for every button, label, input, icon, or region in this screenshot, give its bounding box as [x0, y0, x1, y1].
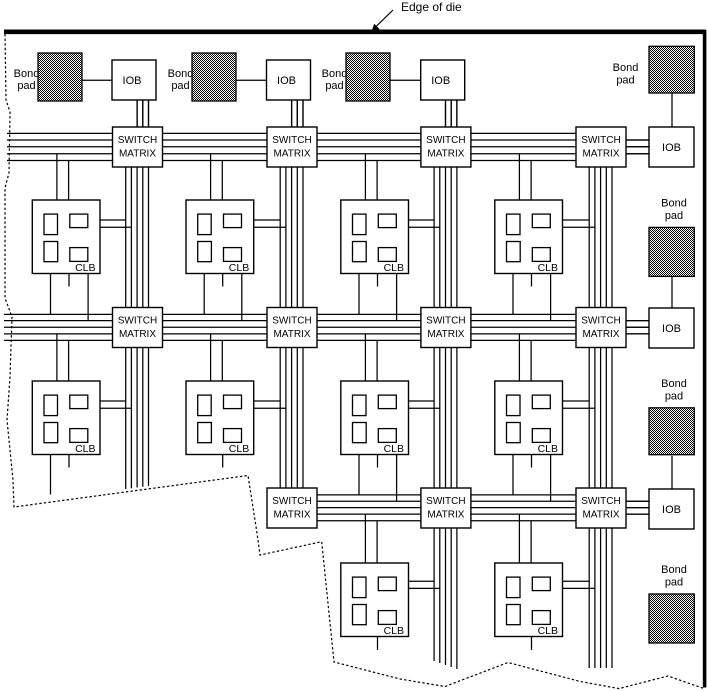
v-bus col3 line2 [439, 127, 441, 663]
stub CLB r1c3 bottom-middle [377, 274, 379, 287]
v-bus col4 line3 [600, 127, 602, 668]
wire IOB3-to-switch-matrix v2 [450, 100, 452, 127]
v-bus col4 line1 [588, 127, 590, 668]
svg-text:CLB: CLB [538, 625, 558, 637]
svg-text:MATRIX: MATRIX [273, 149, 310, 160]
wire CLB r2c4 right-2 [563, 407, 595, 409]
CLB r1c3 inner blocks [353, 214, 397, 262]
CLB r2c2 inner blocks [198, 395, 242, 443]
svg-text:IOB: IOB [662, 323, 681, 335]
svg-text:IOB: IOB [662, 504, 681, 516]
wire CLB r1c2 top-left [210, 154, 212, 200]
wire CLB r2c3 bottom-left [358, 455, 360, 495]
svg-text:MATRIX: MATRIX [582, 149, 619, 160]
wire CLB r1c1 right-2 [100, 226, 131, 228]
v-bus col1 line4 [142, 100, 144, 487]
wire CLB r1c3 right-2 [409, 226, 440, 228]
switch matrix r2c2 [267, 308, 317, 348]
CLB r2c4 inner blocks [507, 395, 551, 443]
wire CLB r2c2 top-left [210, 334, 212, 381]
wire IOB3-to-switch-matrix v1 [445, 100, 447, 127]
svg-text:CLB: CLB [229, 262, 249, 274]
arrowhead Edge of die [372, 24, 380, 32]
wire CLB r2c2 right-1 [254, 400, 281, 402]
svg-text:Edge of die: Edge of die [401, 0, 462, 14]
svg-text:CLB: CLB [75, 262, 95, 274]
CLB r2c3 inner blocks [353, 395, 397, 443]
wire CLB r2c1 right-1 [100, 400, 126, 402]
v-bus col3 line5 [456, 100, 458, 669]
wire CLB r1c1 top-right [68, 161, 70, 201]
wire CLB r2c2 right-2 [254, 407, 286, 409]
v-bus col4 line2 [594, 127, 596, 668]
die edge right (thick) [703, 30, 707, 688]
wire CLB r1c2 top-right [221, 161, 223, 201]
svg-text:pad: pad [171, 80, 189, 92]
wire CLB r1c3 bottom-right [396, 274, 398, 321]
wire CLB r1c4 right-2 [563, 226, 595, 228]
svg-text:SWITCH: SWITCH [118, 135, 157, 146]
svg-text:CLB: CLB [384, 625, 404, 637]
wire CLB r2c4 bottom-left [512, 455, 514, 495]
svg-text:IOB: IOB [123, 75, 142, 87]
CLB r1c4 [495, 200, 563, 274]
svg-text:SWITCH: SWITCH [426, 135, 465, 146]
v-bus col3 line3 [445, 100, 447, 665]
switch matrix r1c4 [576, 127, 626, 167]
wire CLB r3c4 top-left [518, 514, 520, 563]
wire CLB r2c3 top-left [364, 334, 366, 381]
CLB r1c2 [186, 200, 254, 274]
h-bus row1 line5 [7, 160, 626, 162]
stub CLB r1c1 bottom-middle [68, 274, 70, 287]
bond pad top 1 [38, 53, 82, 101]
CLB r1c4 inner blocks [507, 214, 551, 262]
arrow Edge of die [374, 10, 394, 29]
svg-text:SWITCH: SWITCH [272, 135, 311, 146]
IOB right 1 [649, 127, 694, 167]
stub CLB r3c3 bottom-middle [377, 637, 379, 651]
wire IOB2-to-switch-matrix v1 [291, 100, 293, 127]
CLB r1c2 inner blocks [198, 214, 242, 262]
svg-text:SWITCH: SWITCH [272, 496, 311, 507]
h-bus row1 line4 [7, 153, 649, 155]
v-bus col2 line2 [285, 127, 287, 528]
bond pad top 3 [346, 53, 390, 101]
svg-text:SWITCH: SWITCH [581, 135, 620, 146]
svg-text:Bond: Bond [661, 378, 687, 390]
v-bus col2 line4 [296, 100, 298, 528]
wire right-bond-pad-2-to-IOB [671, 275, 673, 308]
svg-text:MATRIX: MATRIX [119, 149, 156, 160]
wire CLB r2c1 top-right [68, 340, 70, 381]
switch matrix r3c3 [421, 488, 471, 528]
stub CLB r2c3 bottom-middle [377, 455, 379, 468]
svg-text:pad: pad [616, 75, 634, 87]
svg-text:CLB: CLB [384, 443, 404, 455]
svg-text:CLB: CLB [538, 443, 558, 455]
wire CLB r3c4 top-right [530, 521, 532, 563]
wire CLB r1c1 top-left [56, 154, 58, 200]
svg-text:pad: pad [665, 210, 683, 222]
CLB r2c1 [32, 381, 100, 455]
svg-text:SWITCH: SWITCH [581, 316, 620, 327]
IOB right 2 [649, 308, 694, 348]
svg-text:IOB: IOB [662, 142, 681, 154]
svg-text:pad: pad [17, 80, 35, 92]
svg-text:SWITCH: SWITCH [426, 496, 465, 507]
h-bus row3 line3 [267, 507, 649, 509]
IOB right 3 [649, 489, 694, 529]
svg-text:CLB: CLB [538, 262, 558, 274]
wire CLB r2c4 top-left [518, 334, 520, 381]
wire CLB r2c4 top-right [530, 340, 532, 381]
wire bond-pad-1-to-IOB1 [82, 79, 112, 81]
CLB r1c1 [32, 200, 100, 274]
wire CLB r2c3 bottom-right [396, 455, 398, 502]
CLB r1c1 inner blocks [44, 214, 88, 262]
h-bus row3 line2 [267, 500, 649, 502]
v-bus col2 line3 [291, 100, 293, 528]
wire right-bond-pad-1-to-IOB [671, 93, 673, 127]
stub CLB r3c4 bottom-middle [531, 637, 533, 651]
svg-text:MATRIX: MATRIX [427, 510, 464, 521]
wire CLB r1c1 bottom-right [87, 274, 89, 321]
die edge top (thick) [4, 29, 706, 34]
h-bus row2 line3 [4, 326, 649, 328]
wire CLB r1c2 bottom-right [241, 274, 243, 321]
svg-text:MATRIX: MATRIX [582, 510, 619, 521]
wire CLB r3c3 top-right [376, 521, 378, 563]
CLB r2c2 [186, 381, 254, 455]
v-bus col1 line1 [125, 127, 127, 489]
svg-text:SWITCH: SWITCH [272, 316, 311, 327]
svg-text:SWITCH: SWITCH [118, 316, 157, 327]
CLB r3c4 [495, 563, 563, 637]
wire CLB r1c1 bottom-left [50, 274, 52, 315]
wire switch-matrix-to-right-IOB row3 h2 [626, 507, 649, 509]
wire right-bond-pad-3-to-IOB [671, 456, 673, 489]
svg-text:Bond: Bond [661, 564, 687, 576]
wire CLB r1c3 bottom-left [358, 274, 360, 315]
v-bus col4 line5 [611, 127, 613, 668]
svg-text:CLB: CLB [384, 262, 404, 274]
wire CLB r1c3 top-left [364, 154, 366, 200]
stub CLB r2c4 bottom-middle [531, 455, 533, 468]
wire CLB r1c2 bottom-left [203, 274, 205, 315]
v-bus col2 line1 [279, 127, 281, 528]
svg-text:MATRIX: MATRIX [119, 329, 156, 340]
wire switch-matrix-to-right-IOB row1 h2 [626, 146, 649, 148]
switch matrix r1c2 [267, 127, 317, 167]
wire CLB r1c2 right-2 [254, 226, 286, 228]
svg-text:MATRIX: MATRIX [582, 329, 619, 340]
wire CLB r2c3 right-1 [409, 400, 435, 402]
svg-text:Bond: Bond [168, 68, 194, 80]
CLB r3c3 inner blocks [353, 577, 397, 625]
wire bond-pad-2-to-IOB2 [236, 79, 267, 81]
svg-text:Bond: Bond [613, 62, 639, 74]
svg-text:pad: pad [325, 80, 343, 92]
wire CLB r2c3 right-2 [409, 407, 440, 409]
v-bus col3 line1 [433, 127, 435, 661]
svg-text:IOB: IOB [431, 75, 450, 87]
wire CLB r2c1 top-left [56, 334, 58, 381]
wire switch-matrix-to-right-IOB row2 h1 [626, 320, 649, 322]
IOB top 3 [421, 60, 465, 100]
wire IOB1-to-switch-matrix v2 [142, 100, 144, 127]
wire bond-pad-3-to-IOB3 [390, 79, 421, 81]
svg-text:CLB: CLB [229, 443, 249, 455]
svg-text:Bond: Bond [322, 68, 348, 80]
bond pad right 2 [649, 227, 694, 276]
wire IOB1-to-switch-matrix v3 [148, 100, 150, 127]
wire switch-matrix-to-right-IOB row1 h3 [626, 153, 649, 155]
CLB r2c1 inner blocks [44, 395, 88, 443]
h-bus row1 line3 [7, 146, 649, 148]
wire CLB r1c1 right-1 [100, 219, 126, 221]
wire IOB2-to-switch-matrix v2 [296, 100, 298, 127]
CLB r2c4 [495, 381, 563, 455]
svg-text:MATRIX: MATRIX [427, 329, 464, 340]
wire CLB r2c4 bottom-right [550, 455, 552, 502]
switch matrix r2c4 [576, 308, 626, 348]
wire switch-matrix-to-right-IOB row2 h2 [626, 326, 649, 328]
switch matrix r3c2 [267, 488, 317, 528]
h-bus row1 line1 [7, 132, 626, 134]
h-bus row3 line1 [267, 494, 626, 496]
v-bus col4 line4 [605, 127, 607, 668]
v-bus col3 line4 [450, 100, 452, 667]
svg-text:SWITCH: SWITCH [581, 496, 620, 507]
stub CLB r2c2 bottom-middle [222, 455, 224, 468]
wire CLB r1c4 top-left [518, 154, 520, 200]
wire CLB r1c4 top-right [530, 161, 532, 201]
wire CLB r1c4 right-1 [563, 219, 590, 221]
wire switch-matrix-to-right-IOB row3 h1 [626, 500, 649, 502]
v-bus col1 line5 [148, 100, 150, 486]
wire CLB r2c4 right-1 [563, 400, 590, 402]
svg-text:MATRIX: MATRIX [273, 329, 310, 340]
svg-text:MATRIX: MATRIX [273, 510, 310, 521]
v-bus col1 line3 [136, 100, 138, 488]
wire IOB1-to-switch-matrix v1 [136, 100, 138, 127]
wire switch-matrix-to-right-IOB row1 h1 [626, 139, 649, 141]
h-bus row2 line1 [4, 313, 626, 315]
h-bus row2 line5 [4, 339, 626, 341]
wire CLB r2c1 bottom-left (cut by die edge) [50, 455, 52, 495]
wire CLB r3c3 right-1 [409, 580, 435, 582]
wire CLB r1c2 right-1 [254, 219, 281, 221]
wire switch-matrix-to-right-IOB row3 h3 [626, 513, 649, 515]
stub CLB r1c2 bottom-middle [222, 274, 224, 287]
CLB r3c3 [341, 563, 409, 637]
h-bus row3 line4 [267, 513, 649, 515]
wire CLB r3c4 right-1 [563, 580, 590, 582]
CLB r1c3 [341, 200, 409, 274]
bond pad right 3 [649, 408, 694, 455]
svg-text:IOB: IOB [277, 75, 296, 87]
switch matrix r1c3 [421, 127, 471, 167]
stub CLB r2c1 bottom-middle [68, 455, 70, 468]
bond pad right 4 [649, 594, 694, 643]
wire switch-matrix-to-right-IOB row2 h3 [626, 333, 649, 335]
bond pad right 1 [649, 46, 694, 93]
IOB top 1 [112, 60, 156, 100]
CLB r3c4 inner blocks [507, 577, 551, 625]
CLB r2c3 [341, 381, 409, 455]
svg-text:Bond: Bond [661, 198, 687, 210]
wire CLB r2c3 top-right [376, 340, 378, 381]
wire CLB r3c4 right-2 [563, 587, 595, 589]
h-bus row3 line5 [267, 520, 626, 522]
svg-text:MATRIX: MATRIX [427, 149, 464, 160]
h-bus row2 line4 [4, 333, 649, 335]
wire CLB r3c3 top-left [364, 514, 366, 563]
v-bus col1 line2 [130, 127, 132, 488]
bond pad top 2 [192, 53, 236, 101]
switch matrix r1c1 [113, 127, 163, 167]
switch matrix r2c3 [421, 308, 471, 348]
switch matrix r3c4 [576, 488, 626, 528]
wire CLB r3c3 right-2 [409, 587, 440, 589]
h-bus row2 line2 [4, 320, 649, 322]
wire CLB r1c4 bottom-left [512, 274, 514, 315]
wire CLB r2c2 top-right [221, 340, 223, 381]
v-bus col2 line5 [302, 100, 304, 528]
IOB top 2 [267, 60, 311, 100]
h-bus row1 line2 [7, 139, 649, 141]
stub CLB r1c4 bottom-middle [531, 274, 533, 287]
wire CLB r2c1 right-2 [100, 407, 131, 409]
svg-text:pad: pad [665, 577, 683, 589]
svg-text:SWITCH: SWITCH [426, 316, 465, 327]
wire CLB r1c4 bottom-right [550, 274, 552, 321]
switch matrix r2c1 [113, 308, 163, 348]
svg-text:pad: pad [665, 390, 683, 402]
wire IOB3-to-switch-matrix v3 [456, 100, 458, 127]
svg-text:Bond: Bond [14, 68, 40, 80]
wire CLB r1c3 right-1 [409, 219, 435, 221]
svg-text:CLB: CLB [75, 443, 95, 455]
wire IOB2-to-switch-matrix v3 [302, 100, 304, 127]
wire CLB r1c3 top-right [376, 161, 378, 201]
